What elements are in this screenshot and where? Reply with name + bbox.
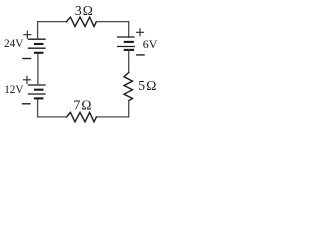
resistor R 5ohm (right side) [124,73,133,101]
minus sign of 24V [23,58,31,60]
wire right rail upper (to 6V battery) [128,22,130,37]
wire bottom rail right segment [96,116,128,118]
wire left rail lower (12V to bottom corner) [37,98,39,117]
resistor R 3ohm (top) [66,17,96,26]
svg-text:24V: 24V [4,36,24,50]
minus sign of 12V [23,103,31,105]
wire right rail lower [128,101,130,117]
wire left rail upper (top corner to 24V) [37,22,39,40]
battery 6V plates [118,37,135,50]
wire top rail right segment [96,21,128,23]
svg-text:7 Ω: 7 Ω [73,98,91,113]
svg-text:5 Ω: 5 Ω [138,78,156,93]
svg-text:3 Ω: 3 Ω [75,3,93,18]
minus sign of 6V [137,54,144,56]
plus sign of 6V [137,29,144,36]
svg-text:6V: 6V [143,37,158,51]
wire right rail middle (6V to 5ohm) [128,50,130,73]
battery 24V plates [28,39,45,53]
wire left rail middle (24V to 12V) [37,53,39,85]
wire top rail left segment [38,21,67,23]
resistor R 7ohm (bottom) [66,112,96,121]
plus sign of 24V [24,31,31,38]
wire bottom rail left segment [38,116,67,118]
battery 12V plates [28,85,45,98]
svg-text:12V: 12V [4,82,24,96]
plus sign of 12V [24,76,31,83]
